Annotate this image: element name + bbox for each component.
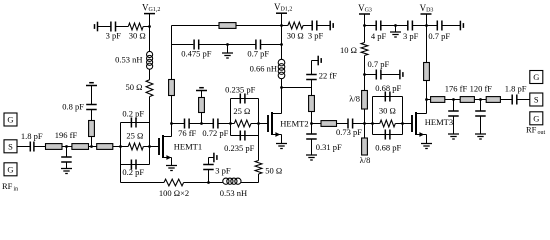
svg-text:0.53 nH: 0.53 nH [115,55,142,65]
wire box3 left side [372,97,374,135]
wire HEMT2 gate lead [259,123,269,125]
capacitor 3 pF (V_D1,2 branch) [312,21,317,31]
svg-text:1.8 pF: 1.8 pF [21,131,43,141]
svg-text:0.72 pF: 0.72 pF [202,128,228,138]
pad G (input bottom) [4,163,17,176]
wire rail3 top branch to C 4pF [365,25,377,27]
wire C 0.73pF to node G [353,123,373,125]
svg-text:G: G [533,72,539,82]
node box3 left [371,122,374,125]
node B (input stub) [90,145,93,148]
open stub end (interstage stub) [196,90,207,92]
node HEMT2 drain bias [280,86,283,89]
capacitor 196 fF shunt to ground [66,147,68,158]
wire rail2 down to L 0.66nH [281,45,283,60]
wire drain node to TL11 [427,99,431,101]
capacitor 0.7 pF (top right) [437,21,442,31]
capacitor 0.72 pF (interstage) [213,119,218,129]
svg-text:G3: G3 [365,7,372,13]
wire C 76fF to node D [189,123,213,125]
transmission line lambda/8 upper stub [362,91,368,110]
wire HEMT1 source down to ground [171,158,173,166]
ground (0.31 pF shunt) [306,155,317,160]
svg-text:G1,2: G1,2 [149,7,161,13]
wire TL2 to TL3 [89,146,97,148]
pad S (output) [530,93,543,106]
svg-text:76 fF: 76 fF [178,128,196,138]
svg-text:0.7 pF: 0.7 pF [428,31,450,41]
capacitor 0.31 pF shunt [311,124,313,135]
wire box1 left side [120,123,122,165]
wire TL9 to C 0.73pF [337,123,349,125]
transmission line stub TL4 (vertical, input) [91,137,93,147]
wire box2 bottom branch [231,135,259,137]
wire R 10ohm to node H [364,56,366,91]
node D (interstage stub) [200,122,203,125]
capacitor 22 fF stub [311,80,313,88]
wire HEMT1 drain up to interstage node [171,124,173,137]
wire TL12 to node J [474,99,486,101]
svg-text:HEMT2: HEMT2 [280,118,308,128]
wire box2 top branch [231,98,259,100]
svg-text:176 fF: 176 fF [445,84,468,94]
transmission line TL8 (vertical, HEMT2 output) [311,88,313,96]
open stub end (input stub) [86,85,97,87]
svg-text:0.68 pF: 0.68 pF [375,83,401,93]
capacitor 0.2 pF (box1 top) [131,118,136,128]
wire box1 left down to bottom line [120,165,122,183]
supply terminal V_D1,2 [276,12,287,14]
wire rail2 to second junction [281,26,283,45]
svg-text:10 Ω: 10 Ω [340,45,357,55]
svg-text:λ/8: λ/8 [360,155,371,165]
wire L to drain bias node [281,79,283,88]
svg-text:D1,2: D1,2 [281,7,293,13]
svg-text:RF: RF [526,125,537,135]
pad S (input) [4,140,17,153]
supply terminal V_G1,2 [144,13,155,15]
open stub end (0.7 pF branch) [399,70,401,80]
wire box1 top branch [121,122,150,124]
wire C 0.72pF to box2 [218,123,234,125]
svg-text:0.31 pF: 0.31 pF [316,142,342,152]
node J (output shunt 2) [479,98,482,101]
capacitor 120 fF shunt to ground [480,100,482,112]
supply terminal V_G3 [359,13,370,15]
transistor HEMT3 [411,115,413,132]
svg-text:G: G [7,164,13,174]
capacitor 176 fF shunt to ground [453,100,455,112]
capacitor 0.8 pF (input stub) [86,105,97,110]
wire TL5 up to feedback corner [172,26,220,80]
resistor 50 Ω (bottom network vertical) [255,161,262,175]
svg-text:30 Ω: 30 Ω [287,31,304,41]
svg-text:50 Ω: 50 Ω [126,82,143,92]
wire drain bias node to 22fF stub [282,87,312,89]
pad G (output top) [530,71,543,84]
capacitor 0.235 pF (box2 top) [240,94,245,104]
wire C 0.475pF to mid ground [199,44,256,46]
svg-text:100 Ω×2: 100 Ω×2 [159,188,189,198]
svg-text:0.68 pF: 0.68 pF [375,143,401,153]
open stub end (22 fF stub) [317,56,319,66]
node A (input shunt cap) [65,145,68,148]
ground (output shunt 2) [475,134,486,139]
wire S pad to C 1.8pF [17,146,30,148]
wire box3 right side [402,97,404,135]
wire HEMT3 source down to ground [426,135,428,144]
wire TL10 down to output line [426,81,428,100]
wire L to R 50ohm [149,69,151,80]
ground (HEMT1 source) [166,166,177,171]
node box2 right / gate HEMT2 [257,122,260,125]
svg-text:3 pF: 3 pF [106,30,122,40]
capacitor 1.8 pF (output) [512,95,517,105]
transistor HEMT1 [158,138,160,155]
wire C to TL1 [34,146,46,148]
svg-text:HEMT3: HEMT3 [425,117,453,127]
node box2 left [229,122,232,125]
wire HEMT2 source down to ground [281,135,283,144]
node E (3 pF stub) [207,181,210,184]
svg-text:120 fF: 120 fF [470,84,493,94]
svg-text:50 Ω: 50 Ω [265,165,282,175]
open stub end (V_G1,2 branch) [97,22,99,32]
wire C 0.8pF to open end [91,86,93,105]
capacitor 0.68 pF (box3 top) [385,92,390,102]
wire R 50ohm up to box2 bottom right [258,136,260,161]
svg-text:25 Ω: 25 Ω [233,106,250,116]
node HEMT3 drain [425,98,428,101]
ground (output shunt 1) [448,134,459,139]
wire resistor to box3 right [395,123,402,125]
svg-text:3 pF: 3 pF [308,31,324,41]
node rail1 / branch junction [148,25,151,28]
wire lambda/8 upper to node G [364,109,366,124]
node rail4 crossing [425,24,428,27]
wire box2 right side [258,99,260,136]
capacitor 0.68 pF (box3 bottom) [385,130,390,140]
pad G (output bottom) [530,112,543,125]
node I (output shunt 1) [452,98,455,101]
node G (lambda/8 junction) [363,122,366,125]
wire open to C 3pF [98,26,111,28]
capacitor 0.73 pF (interstage 2->3) [348,119,353,129]
svg-text:0.53 nH: 0.53 nH [220,188,247,198]
svg-text:0.73 pF: 0.73 pF [336,127,362,137]
node rail2 top junction [280,24,283,27]
capacitor 0.7 pF (feedback) [256,40,261,50]
transmission line TL1 (input) [46,144,63,150]
ground (HEMT2 source) [276,144,287,149]
svg-text:G: G [7,115,13,125]
svg-text:22 fF: 22 fF [319,70,337,80]
node F (0.31 pF shunt) [310,122,313,125]
wire L to bottom right corner [241,174,259,183]
wire rail4 down to TL10 [426,26,428,63]
wire resistor to box2 right [251,123,259,125]
capacitor 4 pF (top right) [376,21,381,31]
capacitor 1.8 pF (input) [30,142,34,152]
capacitor 3 pF stub (bottom network) [208,170,210,183]
wire R to C 3pF [303,25,312,27]
wire C 0.7pF to open [442,25,461,27]
node box3 right / gate HEMT3 [401,122,404,125]
svg-text:3 pF: 3 pF [403,31,419,41]
resistor 100 Ω×2 (bottom network) [164,179,184,186]
capacitor 3 pF (top right) [408,21,413,31]
inductor 0.53 nH (bottom network) [223,178,229,184]
svg-text:0.2 pF: 0.2 pF [122,109,144,119]
wire drain node to C 76fF [172,123,185,125]
transmission line stub TL7 (vertical, interstage) [201,113,203,124]
wire box3 bottom branch [373,134,403,136]
transistor HEMT2 [267,115,269,132]
svg-text:0.66 nH: 0.66 nH [250,64,277,74]
transmission line lambda/8 lower stub [364,124,366,139]
open stub end (top right) [459,21,461,31]
wire box2 left side [230,99,232,136]
wire node F to TL9 [312,123,322,125]
wire C 4pF to ground tap [381,25,408,27]
transmission line TL12 (output) [460,97,474,103]
wire TL6 to rail2 [236,25,282,27]
transmission line TL5 (feedback vertical) [169,80,175,96]
wire rail3 to R 10ohm [364,26,366,43]
svg-text:0.7 pF: 0.7 pF [368,59,390,69]
svg-text:0.2 pF: 0.2 pF [122,167,144,177]
capacitor 0.2 pF (box1 bottom) [131,160,136,170]
wire C to open [317,25,330,27]
wire HEMT2 drain up to bias node [281,88,283,114]
transmission line TL11 (output) [431,97,445,103]
resistor 25 Ω (box2 middle) [234,120,251,127]
ground (HEMT3 source) [421,144,432,149]
node mid-ground (feedback) [226,43,229,46]
svg-text:in: in [14,186,19,192]
wire C 3pF to R 30ohm [116,26,129,28]
wire C 3pF to rail4 crossing [412,25,437,27]
capacitor 3 pF (V_G1,2 branch) [111,22,116,32]
wire TL13 to C 1.8pF [500,99,512,101]
wire HEMT1 gate lead [150,146,160,148]
node C (box1 left) [119,145,122,148]
svg-text:λ/8: λ/8 [349,94,360,104]
svg-text:0.8 pF: 0.8 pF [62,101,84,111]
node ground tap (top right) [394,24,397,27]
svg-text:D3: D3 [426,7,433,13]
svg-text:G: G [533,113,539,123]
svg-text:S: S [8,141,13,151]
node rail2 feedback junction [280,43,283,46]
open stub end (3 pF stub) [213,153,215,163]
svg-text:out: out [538,130,546,136]
wire HEMT3 drain up to output line [426,100,428,114]
ground (top right) [395,26,397,33]
wire drain node up to TL5 [171,96,173,124]
node rail3 top junction [363,24,366,27]
svg-text:4 pF: 4 pF [371,31,387,41]
wire rail1 down to L 0.53nH [149,27,151,52]
capacitor 0.7 pF branch (rail3) [365,74,377,76]
resistor 30 Ω (V_D1,2 branch) [282,25,288,27]
svg-text:HEMT1: HEMT1 [174,142,202,152]
transmission line TL3 (input) [97,144,113,150]
transmission line TL9 (output of HEMT2) [321,121,337,127]
wire box1 right side [149,123,151,165]
wire TL1 to node A [62,146,72,148]
svg-text:30 Ω: 30 Ω [379,106,396,116]
svg-text:0.235 pF: 0.235 pF [225,84,256,94]
wire TL11 to node I [445,99,460,101]
wire resistor to box1 right [143,146,149,148]
svg-text:0.235 pF: 0.235 pF [224,143,255,153]
transmission line TL10 (rail4) [424,63,430,81]
open stub end (V_D1,2 branch) [329,21,331,31]
resistor 30 Ω (box3 middle) [365,123,380,125]
svg-text:30 Ω: 30 Ω [129,30,146,40]
transmission line TL2 (input) [72,144,89,150]
wire box3 top branch [373,96,403,98]
wire HEMT3 gate lead [403,123,413,125]
capacitor 0.475 pF (feedback) [194,40,199,50]
resistor 50 Ω (rail1) [146,80,153,97]
wire bottom line left segment [121,182,165,184]
capacitor 0.235 pF (box2 bottom) [240,131,245,141]
wire feedback second line left segment [172,44,194,46]
node HEMT1 drain [170,122,173,125]
wire C 1.8pF to S pad [517,99,530,101]
resistor 10 Ω (rail3) [361,43,368,56]
capacitor 76 fF (interstage) [185,119,190,129]
svg-text:1.8 pF: 1.8 pF [505,84,527,94]
node H (0.7 pF branch) [363,73,366,76]
node box1 right / gate HEMT1 [148,145,151,148]
svg-text:RF: RF [2,181,13,191]
wire R 50ohm down to matching box top right corner [149,97,151,123]
svg-text:S: S [534,95,539,105]
transmission line TL6 (feedback top) [219,23,236,29]
svg-text:0.7 pF: 0.7 pF [247,49,269,59]
wire box1 bottom branch [121,164,150,166]
resistor 30 Ω (V_G1,2 branch) [128,23,143,30]
pad G (input top) [4,113,17,126]
svg-text:25 Ω: 25 Ω [126,130,143,140]
svg-text:0.475 pF: 0.475 pF [181,49,212,59]
wire TL3 to RC box1 [113,146,128,148]
resistor 25 Ω (box1 middle) [128,143,143,150]
inductor 0.53 nH (rail1) [147,51,153,57]
wire C 0.7pF to rail2 [261,44,282,46]
svg-text:196 fF: 196 fF [55,130,78,140]
ground (feedback mid) [227,45,229,54]
inductor 0.66 nH (rail2) [278,59,285,66]
transmission line TL13 (output) [486,97,500,103]
wire R 30ohm to rail V_G1,2 [143,26,149,28]
svg-text:3 pF: 3 pF [215,165,231,175]
wire R to node E [184,182,223,184]
ground (input shunt) [61,169,72,174]
supply terminal V_D3 [421,13,432,15]
